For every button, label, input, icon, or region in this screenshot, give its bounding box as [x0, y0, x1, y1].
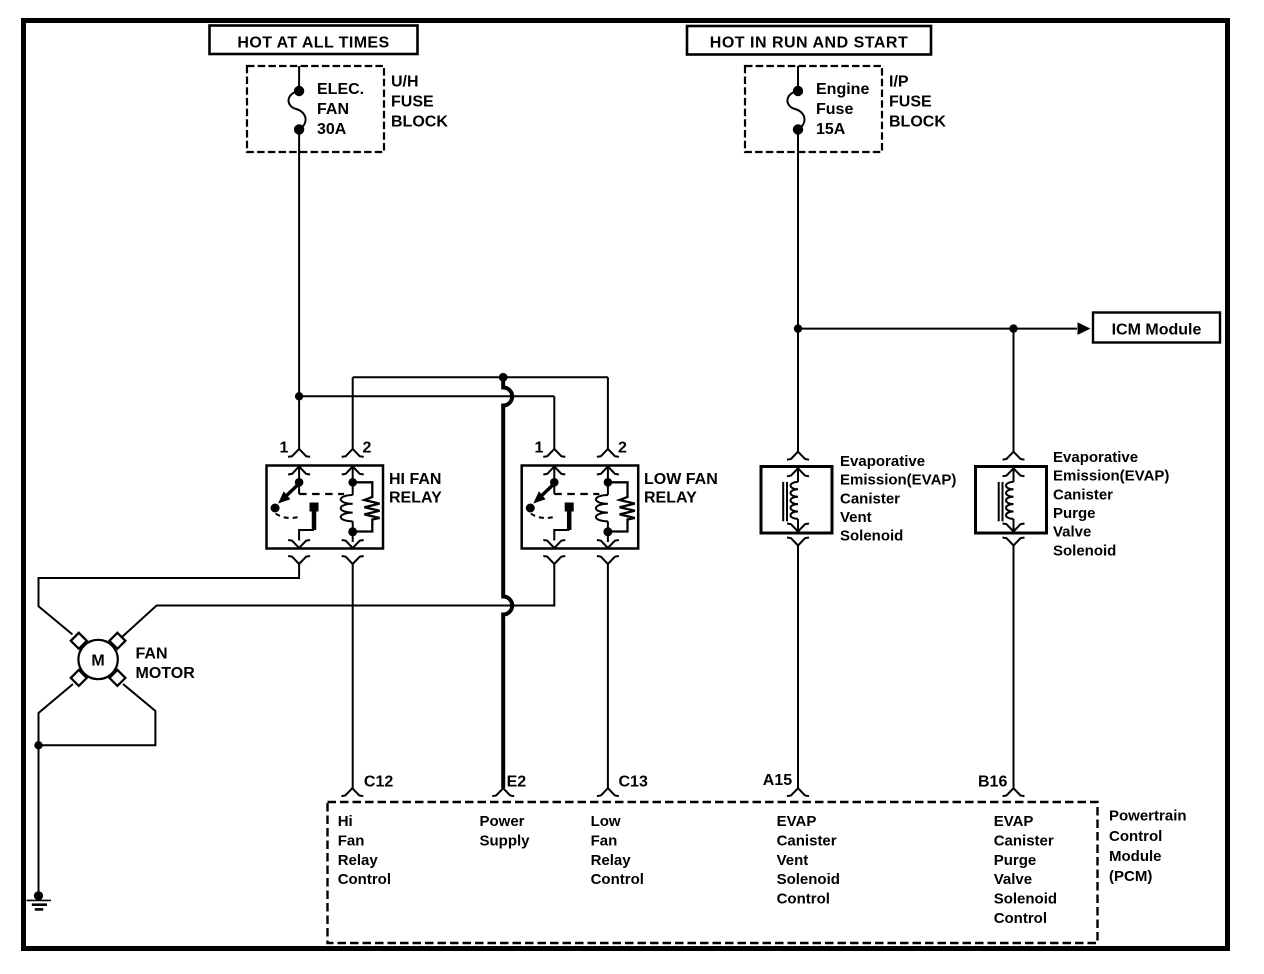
svg-text:Control: Control: [994, 910, 1047, 927]
svg-text:Solenoid: Solenoid: [840, 528, 903, 545]
solenoid core EVAP purge: [999, 482, 1003, 521]
svg-text:FAN: FAN: [136, 646, 168, 663]
wire coil bus (relay pin2 to pin2): [353, 376, 608, 378]
wire motor SE terminal loop: [39, 684, 156, 745]
svg-text:C12: C12: [364, 774, 393, 791]
connector terminals pin 1 K2: [543, 449, 565, 564]
svg-text:Evaporative: Evaporative: [840, 453, 925, 470]
svg-text:RELAY: RELAY: [389, 490, 442, 507]
svg-text:Emission(EVAP): Emission(EVAP): [840, 472, 956, 489]
svg-text:2: 2: [363, 440, 372, 457]
junction node coil bus / E2: [499, 373, 508, 382]
junction node ICM line / purge branch: [1009, 324, 1017, 332]
connector B16: [1003, 788, 1025, 796]
ground G101: [34, 891, 43, 900]
wire from ELEC FAN fuse to HI relay pin 1: [298, 130, 300, 449]
svg-text:EVAP: EVAP: [777, 813, 817, 830]
EVAP canister purge valve solenoid: [976, 452, 1047, 546]
svg-text:Fan: Fan: [338, 832, 365, 849]
PCM pin E2 function Power Supply: [480, 813, 531, 849]
solenoid coil EVAP vent: [791, 468, 799, 531]
fuse Engine Fuse 15A: [787, 87, 804, 134]
label EVAP purge: [1053, 449, 1169, 559]
wire battery feed to LOW relay pin 1: [299, 396, 554, 449]
svg-text:1: 1: [535, 440, 544, 457]
relay K1 box: [267, 466, 384, 549]
wire purge solenoid to PCM B16: [1013, 546, 1015, 789]
svg-text:1: 1: [280, 440, 289, 457]
svg-text:FAN: FAN: [317, 101, 349, 118]
svg-text:Control: Control: [777, 891, 830, 908]
coil shunt resistor K2: [609, 482, 635, 531]
svg-text:Solenoid: Solenoid: [1053, 542, 1116, 559]
label FAN MOTOR: [136, 646, 196, 683]
mechanical link K1: [299, 493, 344, 495]
connector A15: [787, 788, 809, 796]
svg-text:U/H: U/H: [391, 74, 419, 91]
svg-text:15A: 15A: [816, 121, 846, 138]
solenoid EVAP vent box: [761, 467, 832, 534]
svg-text:Canister: Canister: [1053, 486, 1113, 503]
svg-text:Power: Power: [480, 813, 525, 830]
relay coil K2: [596, 467, 613, 543]
connector terminals EVAP vent: [787, 452, 809, 546]
solenoid EVAP purge box: [976, 467, 1047, 534]
svg-text:FUSE: FUSE: [391, 94, 434, 111]
svg-text:30A: 30A: [317, 121, 347, 138]
PCM dashed box: [328, 802, 1098, 943]
svg-text:M: M: [91, 653, 104, 670]
wire fuse ELEC FAN feed: [298, 66, 300, 91]
svg-text:MOTOR: MOTOR: [136, 665, 196, 682]
EVAP canister vent solenoid: [761, 452, 832, 546]
wire fuse Engine feed: [797, 66, 799, 91]
wire from ICM line down to EVAP purge solenoid: [1013, 329, 1015, 452]
PCM pin B16 function EVAP Canister Purge Valve Solenoid Control: [994, 813, 1057, 927]
svg-text:Purge: Purge: [1053, 505, 1096, 522]
header box HOT AT ALL TIMES: [210, 26, 418, 55]
wire E2 power supply (thick, with hops): [503, 377, 512, 788]
svg-text:Vent: Vent: [777, 852, 809, 869]
svg-text:Supply: Supply: [480, 832, 531, 849]
wire LOW relay pin1 out to fan motor: [122, 564, 554, 637]
wire vent solenoid to PCM A15: [797, 546, 799, 789]
switch contacts K2: [526, 467, 574, 541]
svg-text:Control: Control: [591, 871, 644, 888]
connector terminals pin 2 K2: [597, 449, 619, 564]
label U/H FUSE BLOCK: [391, 74, 448, 131]
label LOW FAN RELAY: [644, 471, 718, 507]
label HI FAN RELAY: [389, 471, 442, 507]
I/P fuse block dashed box: [745, 66, 882, 152]
connector E2: [492, 788, 514, 796]
svg-text:Engine: Engine: [816, 81, 869, 98]
fan motor M circle: [78, 640, 117, 679]
junction node motor ground: [34, 741, 42, 749]
label EVAP vent: [840, 453, 956, 545]
svg-text:Fan: Fan: [591, 832, 618, 849]
svg-text:I/P: I/P: [889, 74, 909, 91]
svg-text:B16: B16: [978, 774, 1007, 791]
relay K2 box: [522, 466, 639, 549]
relay K1 HI FAN RELAY: [267, 449, 384, 564]
svg-text:Canister: Canister: [994, 832, 1054, 849]
svg-text:BLOCK: BLOCK: [391, 114, 448, 131]
connector terminals EVAP purge: [1003, 452, 1025, 546]
fuse ELEC. FAN 30A: [289, 87, 306, 134]
svg-text:HOT IN RUN AND START: HOT IN RUN AND START: [710, 35, 908, 52]
svg-text:Solenoid: Solenoid: [994, 891, 1057, 908]
svg-text:2: 2: [618, 440, 627, 457]
svg-text:Evaporative: Evaporative: [1053, 449, 1138, 466]
pin number labels K1: [280, 440, 372, 457]
svg-text:HI FAN: HI FAN: [389, 471, 441, 488]
svg-text:Canister: Canister: [840, 490, 900, 507]
wire HI relay pin 2 drop: [352, 377, 354, 449]
wire to ICM Module with arrowhead: [798, 328, 1077, 330]
solenoid coil EVAP purge: [1006, 468, 1013, 531]
svg-text:EVAP: EVAP: [994, 813, 1034, 830]
wire LOW relay pin2 out to PCM C13: [607, 564, 609, 788]
svg-text:Low: Low: [591, 813, 621, 830]
svg-text:Purge: Purge: [994, 852, 1037, 869]
svg-text:Control: Control: [338, 871, 391, 888]
svg-text:C13: C13: [619, 774, 648, 791]
svg-text:Canister: Canister: [777, 832, 837, 849]
svg-text:HOT AT ALL TIMES: HOT AT ALL TIMES: [237, 35, 389, 52]
label I/P FUSE BLOCK: [889, 74, 946, 131]
U/H fuse block dashed box: [247, 66, 384, 152]
svg-text:(PCM): (PCM): [1109, 868, 1152, 885]
svg-text:Valve: Valve: [1053, 524, 1091, 541]
wire from Engine fuse down to EVAP vent solenoid: [797, 130, 799, 452]
junction node Engine fuse / ICM branch: [794, 324, 802, 332]
svg-text:Fuse: Fuse: [816, 101, 853, 118]
svg-text:Hi: Hi: [338, 813, 353, 830]
junction node on left fuse wire: [295, 392, 303, 400]
svg-text:Control: Control: [1109, 828, 1162, 845]
wire HI relay pin2 out to PCM C12: [352, 564, 354, 788]
svg-text:Solenoid: Solenoid: [777, 871, 840, 888]
svg-text:LOW FAN: LOW FAN: [644, 471, 718, 488]
svg-text:Module: Module: [1109, 848, 1162, 865]
header box HOT IN RUN AND START: [687, 26, 931, 55]
svg-text:BLOCK: BLOCK: [889, 114, 946, 131]
PCM pin A15 function EVAP Canister Vent Solenoid Control: [777, 813, 840, 908]
fan motor terminals (diamonds): [71, 633, 87, 649]
svg-text:ICM Module: ICM Module: [1112, 322, 1202, 339]
svg-text:FUSE: FUSE: [889, 94, 932, 111]
relay coil K1: [341, 467, 358, 543]
wire motor SW terminal to ground run: [39, 684, 74, 745]
connector C13: [597, 788, 619, 796]
wire HI relay pin1 out to fan motor: [39, 564, 300, 635]
wire to ground: [38, 745, 40, 891]
ICM Module box: [1093, 313, 1220, 343]
connector terminals pin 1 K1: [288, 449, 310, 564]
svg-text:Emission(EVAP): Emission(EVAP): [1053, 468, 1169, 485]
PCM pin C13 function Low Fan Relay Control: [591, 813, 644, 888]
svg-text:Relay: Relay: [338, 852, 379, 869]
switch contacts K1: [271, 467, 319, 541]
mechanical link K2: [554, 493, 599, 495]
svg-text:Powertrain: Powertrain: [1109, 808, 1187, 825]
PCM pin C12 function Hi Fan Relay Control: [338, 813, 391, 888]
svg-text:Relay: Relay: [591, 852, 632, 869]
svg-text:A15: A15: [763, 772, 792, 789]
solenoid core EVAP vent: [783, 482, 787, 521]
pin number labels K2: [535, 440, 628, 457]
connector terminals pin 2 K1: [342, 449, 364, 564]
svg-text:E2: E2: [507, 774, 527, 791]
svg-text:Valve: Valve: [994, 871, 1032, 888]
svg-text:RELAY: RELAY: [644, 490, 697, 507]
svg-text:Vent: Vent: [840, 509, 872, 526]
connector C12: [341, 788, 363, 796]
svg-text:ELEC.: ELEC.: [317, 81, 364, 98]
wire LOW relay pin 2 drop: [607, 377, 609, 449]
relay K2 LOW FAN RELAY: [522, 449, 639, 564]
label Powertrain Control Module (PCM): [1109, 808, 1187, 886]
coil shunt resistor K1: [354, 482, 380, 531]
